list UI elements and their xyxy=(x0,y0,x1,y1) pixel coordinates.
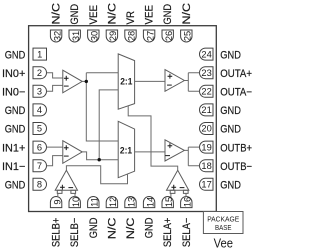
svg-text:29: 29 xyxy=(108,31,118,41)
svg-text:GND: GND xyxy=(69,4,81,25)
svg-text:GND: GND xyxy=(220,49,241,61)
package outline xyxy=(29,26,217,212)
svg-text:16: 16 xyxy=(183,197,193,207)
svg-text:28: 28 xyxy=(127,31,137,41)
svg-text:N/C: N/C xyxy=(106,3,118,25)
svg-text:26: 26 xyxy=(164,31,174,41)
svg-text:−: − xyxy=(165,151,170,161)
wire pin2 to amp A + xyxy=(47,73,63,78)
pin 17 xyxy=(200,178,214,190)
pin 27 xyxy=(143,30,154,42)
svg-text:VEE: VEE xyxy=(88,5,100,25)
mux B (2:1 bottom) xyxy=(118,121,134,177)
mux A (2:1 top) xyxy=(118,54,134,109)
pin 20 xyxy=(200,123,214,135)
svg-text:OUTA−: OUTA− xyxy=(220,87,252,99)
svg-text:5: 5 xyxy=(37,124,42,134)
svg-text:−: − xyxy=(64,151,69,161)
wire pin3 to amp A - xyxy=(47,85,63,91)
svg-text:18: 18 xyxy=(201,161,211,171)
output amp B (OUTB) xyxy=(165,140,184,161)
pin 21 xyxy=(200,104,214,116)
wire output amp A to pins 23/22 xyxy=(184,73,199,92)
svg-text:2: 2 xyxy=(37,68,42,78)
svg-text:−: − xyxy=(64,81,69,91)
svg-text:2:1: 2:1 xyxy=(120,145,132,155)
svg-text:GND: GND xyxy=(5,180,26,192)
svg-text:+: + xyxy=(171,182,176,192)
svg-text:22: 22 xyxy=(201,87,211,97)
svg-text:19: 19 xyxy=(201,142,211,152)
svg-text:SELA+: SELA+ xyxy=(162,218,174,248)
svg-text:GND: GND xyxy=(220,105,241,117)
svg-text:GND: GND xyxy=(5,49,26,61)
pin 14 xyxy=(143,197,154,208)
pin 3 xyxy=(33,85,47,97)
input amp A (IN0) xyxy=(63,70,82,93)
wire amp A output stub xyxy=(82,80,86,82)
pin 9 xyxy=(50,197,61,208)
pin 26 xyxy=(162,30,173,42)
input amp B (IN1) xyxy=(63,141,82,164)
pin 13 xyxy=(125,196,136,207)
svg-text:N/C: N/C xyxy=(106,217,118,239)
pin 22 xyxy=(200,85,214,97)
svg-text:8: 8 xyxy=(37,180,42,190)
svg-text:10: 10 xyxy=(71,197,81,207)
svg-text:GND: GND xyxy=(162,4,174,25)
top labels (rotated) xyxy=(51,3,193,25)
svg-text:N/C: N/C xyxy=(125,217,137,239)
right labels xyxy=(220,49,252,191)
wire pin6 to amp B + xyxy=(47,146,63,148)
svg-text:7: 7 xyxy=(37,161,42,171)
svg-text:+: + xyxy=(167,141,172,151)
pin 30 xyxy=(88,30,99,42)
pin 28 xyxy=(125,30,136,42)
node dot amp B out xyxy=(98,158,101,161)
pin 10 xyxy=(69,197,80,208)
svg-text:OUTB−: OUTB− xyxy=(220,161,252,173)
svg-text:GND: GND xyxy=(220,124,241,136)
wire mux A out to output amp A xyxy=(135,80,165,82)
svg-text:20: 20 xyxy=(201,124,211,134)
svg-text:17: 17 xyxy=(201,180,211,190)
pin 24 xyxy=(200,48,214,60)
pin 31 xyxy=(69,30,80,42)
svg-text:15: 15 xyxy=(164,197,174,207)
svg-text:BASE: BASE xyxy=(215,223,232,232)
left labels xyxy=(2,49,25,191)
pin 23 xyxy=(200,67,214,79)
pin 29 xyxy=(106,30,117,42)
pin 12 xyxy=(106,197,117,208)
svg-text:GND: GND xyxy=(144,217,156,238)
svg-text:11: 11 xyxy=(90,197,100,207)
svg-text:13: 13 xyxy=(127,197,137,207)
svg-text:9: 9 xyxy=(52,199,62,204)
pin 5 xyxy=(33,123,47,135)
pin 6 xyxy=(33,141,47,153)
wire output amp B to pins 19/18 xyxy=(184,147,199,166)
pin 8 xyxy=(33,178,47,190)
pin 18 xyxy=(200,160,214,172)
svg-text:1: 1 xyxy=(37,49,42,59)
svg-text:30: 30 xyxy=(90,31,100,41)
wire amp B out up to mux A in1 xyxy=(99,90,118,160)
svg-text:IN0+: IN0+ xyxy=(2,68,25,80)
svg-text:IN1+: IN1+ xyxy=(2,142,25,154)
pin 19 xyxy=(200,141,214,153)
top pin boxes 32-25 xyxy=(50,30,192,42)
svg-text:3: 3 xyxy=(37,87,42,97)
select comparator SELA xyxy=(167,170,189,197)
svg-text:25: 25 xyxy=(183,31,193,41)
svg-text:24: 24 xyxy=(201,49,211,59)
svg-text:32: 32 xyxy=(52,31,62,41)
svg-text:14: 14 xyxy=(145,197,155,207)
svg-text:OUTB+: OUTB+ xyxy=(220,142,252,154)
svg-text:N/C: N/C xyxy=(51,3,63,25)
svg-text:31: 31 xyxy=(71,31,81,41)
bottom labels (rotated) xyxy=(51,217,193,247)
svg-text:IN1−: IN1− xyxy=(2,161,25,173)
svg-text:−: − xyxy=(167,80,172,90)
svg-text:VR: VR xyxy=(125,11,137,25)
left pin boxes 1-8 xyxy=(33,48,47,190)
svg-text:12: 12 xyxy=(108,197,118,207)
output amp A (OUTA) xyxy=(165,70,184,92)
svg-text:VEE: VEE xyxy=(144,5,156,25)
pin 25 xyxy=(181,30,192,42)
wire pin7 to amp B - xyxy=(47,156,63,166)
pin 2 xyxy=(33,67,47,79)
select comparator SELB xyxy=(55,170,77,197)
svg-text:SELB+: SELB+ xyxy=(51,218,63,248)
pin 16 xyxy=(181,196,192,207)
wire amp B out to mux B in1 xyxy=(82,152,118,160)
pin 15 xyxy=(162,197,173,208)
node dot amp A out xyxy=(85,80,88,83)
pin 4 xyxy=(33,104,47,116)
pin 11 xyxy=(88,197,99,208)
svg-text:GND: GND xyxy=(5,105,26,117)
svg-text:GND: GND xyxy=(5,124,26,136)
right pin boxes 24-17 xyxy=(200,48,214,190)
svg-text:SELA−: SELA− xyxy=(181,218,193,248)
svg-text:Vee: Vee xyxy=(214,235,233,250)
wire SELA comp to mux A select xyxy=(128,106,178,171)
svg-text:SELB−: SELB− xyxy=(69,218,81,248)
svg-text:GND: GND xyxy=(220,180,241,192)
svg-text:GND: GND xyxy=(88,217,100,238)
svg-text:6: 6 xyxy=(37,142,42,152)
svg-text:4: 4 xyxy=(37,105,42,115)
wire amp A out vertical bus xyxy=(86,73,118,141)
svg-text:N/C: N/C xyxy=(181,3,193,25)
svg-text:IN0−: IN0− xyxy=(2,87,25,99)
svg-text:OUTA+: OUTA+ xyxy=(220,68,252,80)
pin 7 xyxy=(33,160,47,172)
svg-text:2:1: 2:1 xyxy=(120,77,132,87)
wire mux B out to output amp B xyxy=(135,151,165,153)
PACKAGE BASE box xyxy=(203,212,243,234)
svg-text:27: 27 xyxy=(145,31,155,41)
pin 1 xyxy=(33,48,47,60)
wire amp A out to mux A in0 xyxy=(86,72,118,74)
bottom pin boxes 9-16 xyxy=(50,196,192,207)
svg-text:21: 21 xyxy=(201,105,211,115)
svg-text:23: 23 xyxy=(201,68,211,78)
wire SELB comp to mux B select xyxy=(66,166,127,184)
svg-text:PACKAGE: PACKAGE xyxy=(207,214,239,223)
pin 32 xyxy=(50,30,61,42)
